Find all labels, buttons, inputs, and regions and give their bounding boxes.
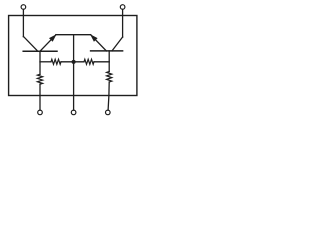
terminal pin top-left [21,5,26,10]
wire: resistor row right segment [94,61,109,63]
transistor Q1 emitter lead [40,35,56,51]
resistor R2 (right horizontal) [84,59,94,64]
wire: Q2 base down to resistor row [108,51,110,72]
transistor Q2 collector lead [112,37,123,51]
terminal pin bottom-left [38,110,43,115]
package outline [9,16,137,96]
wire: Q1 base down to resistor row [39,51,41,74]
resistor R1 (left horizontal) [51,59,61,64]
terminal pin bottom-right [106,110,111,115]
resistor R4 (right vertical) [107,72,112,83]
wire: resistor row center segment [61,61,84,63]
emitter rail wire [56,34,91,36]
transistor Q2 base bar [91,50,123,52]
wire: resistor row left segment [40,61,51,63]
wire: top-right pin to Q2 collector [122,9,124,37]
transistor Q2 emitter arrow [90,34,98,42]
resistor R3 (left vertical) [37,74,42,84]
transistor Q1 base bar [23,50,57,52]
wire: top-left pin to Q1 collector [22,9,24,36]
wire: R4 to bottom-right pin [108,82,109,110]
terminal pin bottom-center [71,110,76,115]
wire: emitter rail down to junction and bottom-center pin [73,35,75,110]
transistor Q1 collector lead [23,36,37,51]
terminal pin top-right [120,5,125,10]
junction node dot [72,60,76,64]
transistor Q2 emitter lead [91,35,107,51]
wire: R3 to bottom-left pin [39,84,41,110]
transistor Q1 emitter arrow [49,34,57,42]
